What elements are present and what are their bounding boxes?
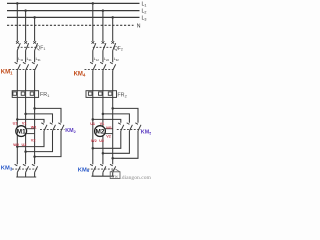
- wire right phase 2 rail to QF2: [102, 11, 104, 41]
- contact KM5-2 fixed tick: [127, 123, 130, 125]
- wire left phase 1 feed to KM2 pole 1: [17, 119, 44, 122]
- motor M2 stub to W1 line: [104, 128, 112, 130]
- svg-text:FR1: FR1: [40, 92, 49, 98]
- contact KM4-3 fixed tick: [110, 62, 113, 64]
- breaker QF2 linkage (dashed): [93, 46, 114, 48]
- node tap left phase 3 on rail: [33, 16, 36, 19]
- node tap left phase 1 on rail: [16, 2, 19, 5]
- svg-text:V1: V1: [22, 122, 27, 126]
- node KM5 return 1 junction: [92, 147, 95, 150]
- motor M1: [16, 126, 35, 137]
- wire KM1 to FR1: [25, 70, 27, 90]
- contact KM4-2 fixed tick: [100, 62, 103, 64]
- contact KM2-1 fixed tick: [41, 123, 44, 125]
- svg-text:W1: W1: [106, 126, 112, 130]
- contact KM1-2 blade: [26, 64, 29, 70]
- wire KM1 to FR1: [34, 70, 36, 90]
- star point bar motor M1: [16, 176, 36, 178]
- svg-text:KM1: KM1: [1, 70, 13, 76]
- wire W1/V2 line right of motor M1: [34, 97, 36, 164]
- circuit breaker QF1: [16, 41, 38, 50]
- node branch left phase 2 to KM2: [24, 113, 27, 116]
- contactor KM4 main contacts: [85, 62, 116, 70]
- svg-text:V2: V2: [106, 135, 111, 139]
- wire left phase 1 rail to QF1: [16, 3, 18, 41]
- breaker pole QF1-1 blade: [17, 43, 20, 50]
- svg-text:N: N: [137, 24, 141, 30]
- breaker pole QF1-3 blade: [35, 43, 38, 50]
- svg-text:W1: W1: [31, 125, 37, 129]
- node branch right phase 3 to KM5: [111, 107, 114, 110]
- wire KM2 pole 2 return to motor M1 terminal: [26, 131, 53, 152]
- breaker pole QF2-3 blade: [113, 43, 116, 50]
- wire KM5 pole 1 return to motor M2 terminal: [93, 131, 121, 148]
- wire KM1 to FR1: [16, 70, 18, 90]
- breaker pole QF1-1 contact cross: [16, 41, 19, 44]
- svg-text:V1: V1: [100, 122, 105, 126]
- node KM2 return 2 junction: [24, 150, 27, 153]
- contact KM6-1 fixed tick: [90, 164, 93, 166]
- thermal overload relay FR1: [12, 91, 38, 98]
- contact KM5-2 blade: [129, 125, 132, 131]
- wire L21 QF1 to KM1: [25, 50, 27, 62]
- wire KM4 to FR2: [112, 70, 114, 90]
- breaker pole QF1-2 contact cross: [24, 41, 27, 44]
- contact KM1-1 blade: [17, 64, 20, 70]
- contact KM4-2 blade: [103, 64, 106, 70]
- node branch right phase 2 to KM5: [102, 113, 105, 116]
- contact KM2-2 fixed tick: [50, 123, 53, 125]
- contact KM3-3 blade: [35, 166, 38, 172]
- contact KM5-3 blade: [138, 125, 141, 131]
- node tap right phase 1 on rail: [92, 2, 95, 5]
- svg-text:ww: ww: [111, 175, 119, 180]
- contact KM5-1 fixed tick: [118, 123, 121, 125]
- contact KM4-3 blade: [113, 64, 116, 70]
- wire right phase 3 feed to KM5 pole 3: [113, 108, 138, 122]
- contactor KM3 star contacts: [12, 164, 38, 177]
- svg-text:KM4: KM4: [74, 72, 86, 78]
- contact KM2-2 blade: [53, 125, 56, 131]
- node KM2 return 3 junction: [33, 155, 36, 158]
- thermal overload relay FR2: [86, 91, 117, 98]
- breaker pole QF1-2 blade: [26, 43, 29, 50]
- wire KM2 pole 3 return to motor M1 terminal: [35, 131, 61, 157]
- contact KM1-2 fixed tick: [23, 62, 26, 64]
- contact KM3-1 blade: [17, 166, 20, 172]
- svg-text:M1: M1: [17, 129, 26, 136]
- contact KM6-2 blade: [103, 166, 106, 172]
- node tap right phase 2 on rail: [102, 9, 105, 12]
- contact KM2-3 fixed tick: [58, 123, 61, 125]
- breaker QF1 linkage (dashed): [17, 46, 36, 48]
- power rail L2: [7, 10, 140, 12]
- node branch right phase 1 to KM5: [92, 118, 95, 121]
- contactor KM2 linkage (dashed): [40, 128, 65, 130]
- circuit breaker QF2: [92, 41, 116, 50]
- wire right phase 1 feed to KM5 pole 1: [93, 119, 121, 122]
- contact KM3-1 fixed tick: [15, 164, 18, 166]
- svg-text:FR2: FR2: [117, 92, 126, 98]
- star point wires KM3: [16, 172, 18, 177]
- wire L12 QF2 to KM4: [92, 50, 94, 62]
- contactor KM6 star contacts: [88, 164, 116, 176]
- wire L22 QF2 to KM4: [102, 50, 104, 62]
- breaker pole QF2-1 contact cross: [92, 41, 95, 44]
- neutral rail N (dashed): [7, 24, 134, 26]
- node KM2 return 1 junction: [16, 145, 19, 148]
- node tap left phase 2 on rail: [24, 9, 27, 12]
- contact KM1-3 blade: [35, 64, 38, 70]
- wire left phase 3 rail to QF1: [34, 17, 36, 41]
- contact KM6-1 blade: [93, 166, 96, 172]
- wire right phase 1 rail to QF2: [92, 3, 94, 41]
- watermark logo box: [110, 169, 120, 180]
- contact KM3-2 fixed tick: [23, 164, 26, 166]
- wire V1 feed to motor M1: [25, 97, 27, 164]
- svg-text:U1: U1: [13, 122, 18, 126]
- motor M1 stub to V2 line: [26, 133, 35, 135]
- svg-text:W2: W2: [91, 139, 97, 143]
- wire L31 QF1 to KM1: [34, 50, 36, 62]
- contactor KM1 linkage (dashed): [9, 68, 36, 70]
- contact KM5-3 fixed tick: [135, 123, 138, 125]
- contact KM6-3 blade: [113, 166, 116, 172]
- contact KM4-1 blade: [93, 64, 96, 70]
- contact KM6-2 fixed tick: [100, 164, 103, 166]
- contactor KM5 linkage (dashed): [117, 128, 141, 130]
- contact KM3-2 blade: [26, 166, 29, 172]
- contactor KM1 main contacts: [9, 62, 38, 70]
- wire left phase 2 feed to KM2 pole 2: [26, 114, 53, 123]
- wire right phase 2 feed to KM5 pole 2: [103, 114, 129, 123]
- wire KM5 pole 3 return to motor M2 terminal: [113, 131, 138, 158]
- svg-text:KM5: KM5: [141, 129, 151, 135]
- power rail L3: [7, 16, 140, 18]
- svg-text:.diangon.com: .diangon.com: [120, 175, 151, 180]
- motor M1 stub to W1 line: [26, 128, 35, 130]
- wire U1 feed to motor M1: [16, 97, 18, 164]
- svg-text:KM3: KM3: [1, 166, 13, 172]
- star point wires KM6: [92, 172, 94, 176]
- power rail L1: [7, 2, 140, 4]
- wire L11 QF1 to KM1: [16, 50, 18, 62]
- wire right phase 3 rail to QF2: [112, 17, 114, 41]
- wire KM2 pole 1 return to motor M1 terminal: [17, 131, 44, 147]
- svg-text:W2: W2: [13, 143, 19, 147]
- wire KM4 to FR2: [102, 70, 104, 90]
- node tap right phase 3 on rail: [111, 16, 114, 19]
- svg-text:V2: V2: [31, 138, 36, 142]
- wire left phase 2 rail to QF1: [25, 11, 27, 41]
- contact KM6-3 fixed tick: [110, 164, 113, 166]
- breaker pole QF2-2 contact cross: [102, 41, 105, 44]
- wire V1 feed to motor M2: [102, 97, 104, 164]
- star point bar motor M2: [92, 175, 115, 177]
- svg-text:U2: U2: [22, 143, 27, 147]
- wire KM5 pole 2 return to motor M2 terminal: [103, 131, 129, 153]
- contact KM4-1 fixed tick: [90, 62, 93, 64]
- contactor KM4 linkage (dashed): [85, 68, 114, 70]
- motor M2: [95, 126, 113, 137]
- breaker pole QF2-2 blade: [103, 43, 106, 50]
- breaker pole QF1-3 contact cross: [33, 41, 36, 44]
- contact KM2-3 blade: [61, 125, 64, 131]
- contactor KM6 linkage (dashed): [88, 168, 116, 170]
- contactor KM2 delta contacts: [40, 123, 65, 131]
- wire L32 QF2 to KM4: [112, 50, 114, 62]
- wire KM4 to FR2: [92, 70, 94, 90]
- motor M2 stub to V2 line: [104, 133, 112, 135]
- wire U1 feed to motor M2: [92, 97, 94, 164]
- wire left phase 3 feed to KM2 pole 3: [35, 108, 61, 122]
- svg-text:M2: M2: [96, 129, 105, 136]
- svg-text:KM2: KM2: [65, 128, 76, 134]
- node KM5 return 3 junction: [111, 157, 114, 160]
- node branch left phase 1 to KM2: [16, 118, 19, 121]
- svg-text:KM6: KM6: [78, 167, 90, 173]
- contact KM1-3 fixed tick: [32, 62, 35, 64]
- breaker pole QF2-3 contact cross: [111, 41, 114, 44]
- contactor KM5 delta contacts: [117, 123, 141, 131]
- wire W1/V2 line right of motor M2: [112, 97, 114, 164]
- svg-text:U2: U2: [99, 139, 104, 143]
- contact KM1-1 fixed tick: [15, 62, 18, 64]
- contact KM3-3 fixed tick: [32, 164, 35, 166]
- contact KM5-1 blade: [121, 125, 124, 131]
- svg-text:U1: U1: [90, 122, 95, 126]
- node branch left phase 3 to KM2: [33, 107, 36, 110]
- breaker pole QF2-1 blade: [93, 43, 96, 50]
- node KM5 return 2 junction: [102, 152, 105, 155]
- contact KM2-1 blade: [44, 125, 47, 131]
- contactor KM3 linkage (dashed): [12, 168, 37, 170]
